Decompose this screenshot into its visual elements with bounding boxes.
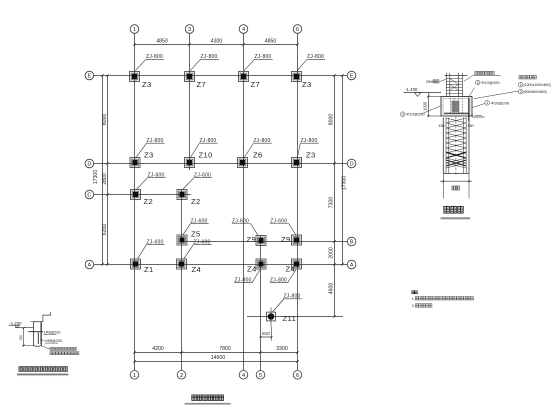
detail: cap height dim extension bottom [427, 115, 441, 117]
top dim tick at axis 3 [188, 43, 190, 45]
left dim tick D [106, 162, 108, 164]
detail: pile width dimension line [440, 180, 472, 182]
axis line 4 (vertical) [243, 33, 245, 370]
grid bubble E (left) [85, 71, 94, 80]
right overall dim tick A [341, 263, 343, 265]
svg-text:4600: 4600 [328, 283, 334, 295]
svg-text:Z3: Z3 [302, 80, 312, 89]
detail: pile dim tick right [468, 180, 470, 182]
svg-text:Z11: Z11 [283, 314, 297, 323]
bottom overall dim tick right [296, 360, 298, 362]
axis bubble 4 (bottom) [239, 371, 248, 380]
svg-text:Φ10@200: Φ10@200 [491, 100, 510, 105]
stair detail: wall top level line [30, 321, 33, 323]
pile cap Z1 (A-1) [131, 259, 141, 269]
stair detail: wall right edge [41, 322, 43, 346]
detail: label 1-phi10@200 [485, 101, 490, 106]
svg-text:Z9: Z9 [281, 235, 291, 244]
bottom dimension line (segments) [135, 352, 298, 354]
detail title underline [441, 217, 471, 219]
pile cap Z9 (B-6) [292, 235, 302, 245]
left dim tick A [106, 263, 108, 265]
stair detail: wall left edge [33, 322, 35, 346]
svg-text:E: E [350, 74, 354, 80]
pile cap Z6 (D-4) [238, 158, 248, 168]
detail: cap anchorage bars (dashed) [450, 98, 452, 113]
detail: label 2 leader [469, 88, 475, 97]
stair detail: rebar horizontal [28, 331, 43, 333]
svg-text:1000: 1000 [422, 101, 427, 111]
right dim tick B [333, 240, 335, 242]
grid line A (horizontal) [94, 264, 347, 266]
stair detail: wall top [34, 321, 42, 323]
pile Z11 crosshair [270, 308, 272, 328]
right dim tick A [333, 263, 335, 265]
axis line 3 (vertical) [189, 33, 191, 170]
detail: top note text (slab see structural) [475, 71, 478, 74]
svg-text:910: 910 [262, 331, 270, 336]
stair detail: elevation triangle [15, 326, 20, 328]
left segment dimension line [107, 76, 109, 265]
pile cap Z4 (A-5) [256, 259, 266, 269]
svg-text:4200: 4200 [152, 346, 164, 352]
pile cap Z9 (B-5) [256, 236, 266, 246]
grid bubble B (right) [347, 237, 356, 246]
bottom overall dim tick left [133, 360, 135, 362]
svg-text:Z7: Z7 [251, 80, 261, 89]
svg-text:Z9: Z9 [247, 235, 257, 244]
svg-text:150: 150 [438, 124, 444, 128]
stair detail: rebar vertical [37, 333, 39, 345]
svg-text:8000: 8000 [328, 114, 334, 126]
detail title: zhuang da yang (pile detail) [444, 206, 449, 213]
detail: pile spiral zigzag 2 [446, 118, 466, 168]
svg-text:6: 6 [296, 27, 299, 33]
svg-text:D: D [350, 162, 354, 168]
svg-text:4: 4 [242, 27, 245, 33]
detail: cap anchorage blob [452, 101, 460, 113]
detail: column stirrup rungs [446, 77, 462, 79]
bottom dim tick at axis 2 [180, 351, 182, 353]
svg-text:2: 2 [520, 90, 522, 94]
right segment dimension line [334, 76, 336, 317]
svg-text:5: 5 [259, 373, 262, 379]
axis bubble 5 (bottom) [256, 371, 265, 380]
axis bubble 6 (top) [293, 25, 302, 34]
right dim tick Z [333, 315, 335, 317]
grid line B (horizontal) [182, 241, 347, 243]
axis line 2 (vertical) [181, 190, 183, 371]
pile cap Z2 (C-2) [177, 190, 187, 200]
svg-text:Z2: Z2 [144, 197, 154, 206]
svg-text:-1.400: -1.400 [405, 87, 418, 92]
axis bubble 3 (top) [185, 25, 194, 34]
detail: ground line left of cap [404, 92, 442, 94]
svg-text:1: 1 [133, 27, 136, 33]
pile cap Z3 (E-6) [292, 72, 302, 82]
detail: dimension label pile diameter [452, 186, 455, 190]
stair detail: note line 2 [50, 352, 52, 355]
pile cap Z3 (D-6) [292, 158, 302, 168]
svg-text:1Φ8@200: 1Φ8@200 [44, 330, 61, 334]
stair detail: wall bottom [34, 345, 42, 348]
svg-text:2: 2 [180, 373, 183, 379]
pile cap Z3 (D-1) [130, 158, 140, 168]
svg-text:Z3: Z3 [144, 151, 154, 160]
svg-text:8000: 8000 [102, 114, 108, 126]
svg-text:Z5: Z5 [191, 230, 201, 239]
stair detail: rebar label 2 leader [40, 340, 45, 342]
left overall dim tick A [101, 263, 103, 265]
detail: cap size note leader [474, 91, 519, 99]
stair detail: left dim extension [22, 345, 34, 347]
bottom dim tick at axis 1 [133, 351, 135, 353]
svg-text:Z4: Z4 [192, 265, 202, 274]
pile cap Z4 (A-2) [177, 259, 187, 269]
detail: label 1 leader [472, 104, 485, 108]
svg-text:-1.200: -1.200 [9, 321, 22, 326]
left dim tick C [106, 193, 108, 195]
detail: column rebar verticals [445, 76, 447, 97]
stair detail title: outdoor stair start support detail [19, 367, 23, 372]
stair detail: note leader [42, 346, 50, 350]
svg-text:150: 150 [19, 335, 23, 341]
detail: cap bottom bars [444, 112, 469, 114]
svg-text:1: 1 [133, 373, 136, 379]
pile cap Z10 (D-3) [185, 158, 195, 168]
svg-text:Z10: Z10 [199, 151, 213, 160]
grid bubble E (right) [347, 71, 356, 80]
grid line at pile Z11 (horizontal) [247, 316, 343, 318]
top dim tick at axis 6 [296, 43, 298, 45]
svg-text:B: B [350, 240, 354, 246]
detail: pile cap inner formwork line [443, 98, 470, 114]
detail: pile centerline (dashed) [455, 117, 457, 175]
svg-text:D: D [87, 162, 91, 168]
pile cap Z4 (A-6) [292, 259, 302, 269]
grid bubble A (left) [85, 260, 94, 269]
detail: elevation triangle [414, 93, 421, 97]
axis bubble 2 (bottom) [177, 371, 186, 380]
svg-text:(1000x1000x800): (1000x1000x800) [524, 83, 551, 87]
detail: top note leader [464, 76, 473, 82]
svg-text:1Φ8@200: 1Φ8@200 [45, 339, 62, 343]
detail: pile dim tick left [442, 180, 444, 182]
svg-text:Φ10@200: Φ10@200 [406, 112, 425, 117]
detail: pile spiral emphasis lower [446, 152, 466, 158]
left dim tick E [106, 74, 108, 76]
svg-text:4850: 4850 [265, 39, 277, 45]
pile cap Z5 (B-2) [177, 235, 187, 245]
axis line 6 (vertical) [297, 33, 299, 370]
top dim tick at axis 4 [242, 43, 244, 45]
stair detail: ground line to wall [15, 327, 34, 329]
svg-text:Z1: Z1 [144, 265, 154, 274]
pile Z11 (below A between 5 and 6) [267, 312, 276, 321]
detail: heavy edge line right [468, 98, 470, 122]
detail: pile width dim extensions [442, 174, 444, 199]
stair detail: left dimension line [23, 328, 25, 346]
detail: cap size note line3 [518, 89, 523, 94]
axis bubble 1 (bottom) [130, 371, 139, 380]
right dim tick D [333, 162, 335, 164]
stair detail: left dim ticks [23, 327, 25, 329]
detail: leader line to column [440, 79, 446, 82]
grid bubble C (left) [85, 190, 94, 199]
top dimension line [135, 44, 298, 46]
stair detail title underline 2 [17, 375, 69, 377]
stair detail: elevation line [9, 325, 18, 327]
pile cap Z2 (C-1) [131, 190, 141, 200]
main title underline [185, 403, 231, 405]
svg-text:2800: 2800 [102, 173, 108, 185]
detail: pile cap outer outline [441, 97, 472, 117]
right overall dimension line 17300 [342, 76, 344, 265]
detail: pile bottom break line [443, 173, 469, 175]
detail: label 3-phi10@200 [400, 112, 405, 117]
top dim tick at axis 1 [133, 43, 135, 45]
detail: pile shaft outer walls [442, 118, 444, 174]
svg-text:1: 1 [520, 83, 522, 87]
axis bubble 1 (top) [130, 25, 139, 34]
svg-text:6: 6 [296, 373, 299, 379]
right dim tick E [333, 74, 335, 76]
axis bubble 6 (bottom) [293, 371, 302, 380]
svg-text:Z2: Z2 [191, 197, 201, 206]
stair detail: note line 1 [50, 348, 52, 351]
svg-text:17300: 17300 [341, 176, 347, 191]
left overall dim tick E [101, 74, 103, 76]
grid bubble A (right) [347, 260, 356, 269]
svg-text:1.: 1. [412, 297, 415, 301]
svg-text:Φ10@200: Φ10@200 [481, 80, 500, 85]
910 dim tick left [260, 336, 262, 338]
svg-text:4: 4 [242, 373, 245, 379]
detail: label 3 leader [422, 106, 442, 114]
910 dim tick right [271, 336, 273, 338]
stair detail title underline [17, 373, 69, 375]
svg-text:Z6: Z6 [253, 151, 263, 160]
svg-text:6200: 6200 [102, 224, 108, 236]
bottom dim tick at axis 5 [259, 351, 261, 353]
svg-text:2: 2 [477, 81, 479, 85]
svg-text:4850: 4850 [156, 39, 168, 45]
svg-text:Z4: Z4 [247, 265, 257, 274]
svg-text:3300: 3300 [276, 346, 288, 352]
grid line D (horizontal) [94, 163, 347, 165]
svg-text:1: 1 [486, 101, 488, 105]
bottom dim tick at axis 6 [296, 351, 298, 353]
svg-text:14600: 14600 [211, 355, 226, 361]
svg-text:3Φ8: 3Φ8 [426, 79, 434, 84]
grid bubble D (right) [347, 159, 356, 168]
detail: column top slab line [445, 75, 468, 77]
svg-text:2000: 2000 [328, 247, 334, 259]
detail: cap height dimension line 1000 [428, 93, 430, 116]
axis bubble 4 (top) [239, 25, 248, 34]
detail: pile shaft rebar verticals [445, 118, 447, 174]
svg-text:A: A [88, 263, 92, 269]
910 extension line below Z11 [271, 327, 273, 341]
svg-text:17300: 17300 [93, 170, 99, 185]
left overall dimension line 17300 [102, 76, 104, 265]
svg-text:C: C [87, 193, 91, 199]
grid line C (horizontal) [94, 194, 191, 196]
detail: column stirrup diagonals [450, 84, 459, 90]
detail: label 2-phi10@200 [475, 80, 480, 85]
pile cap Z7 (E-4) [239, 72, 249, 82]
svg-text:Z3: Z3 [142, 80, 152, 89]
axis line 5 (vertical) [260, 236, 262, 370]
main title: zhuang ji chu ping mian tu (pile foundation plan) [192, 395, 196, 400]
svg-text:7300: 7300 [328, 197, 334, 209]
notes heading: shuo ming [412, 291, 414, 294]
dimension line 910 (axis5 to Z11) [261, 336, 272, 338]
svg-text:(800x800x800): (800x800x800) [524, 90, 547, 94]
svg-text:A: A [350, 263, 354, 269]
svg-text:7800: 7800 [219, 346, 231, 352]
grid line E (horizontal) [94, 75, 347, 77]
svg-text:E: E [88, 74, 92, 80]
axis line 1 (vertical) [134, 33, 136, 370]
svg-text:2.: 2. [412, 304, 415, 308]
detail: overhang dim marks [475, 115, 483, 117]
grid bubble D (left) [85, 159, 94, 168]
stair detail: wall inner line [40, 323, 42, 345]
detail: pile spiral zigzag 1 [446, 118, 466, 168]
bottom overall dimension line [135, 361, 298, 363]
detail: 1000 dim tick bottom [428, 115, 430, 117]
svg-text:4300: 4300 [211, 39, 223, 45]
detail: 1000 dim tick top [428, 96, 430, 98]
detail: ground line right of cap [472, 116, 485, 118]
stair detail: first step outline [42, 312, 51, 322]
detail: cap height dim extension top [427, 96, 441, 98]
pile cap Z7 (E-3) [185, 72, 195, 82]
pile cap Z3 (E-1) [130, 72, 140, 82]
detail: cap size note line1 (cap sizes) [519, 75, 522, 79]
svg-text:3: 3 [402, 112, 404, 116]
svg-text:Z4: Z4 [286, 265, 296, 274]
right overall dim tick E [341, 74, 343, 76]
detail: top note underline [473, 75, 501, 77]
detail: cap size note line2 [518, 82, 523, 87]
svg-text:Z3: Z3 [306, 151, 316, 160]
svg-text:Z7: Z7 [197, 80, 207, 89]
svg-text:150: 150 [467, 124, 473, 128]
svg-text:3: 3 [188, 27, 191, 33]
